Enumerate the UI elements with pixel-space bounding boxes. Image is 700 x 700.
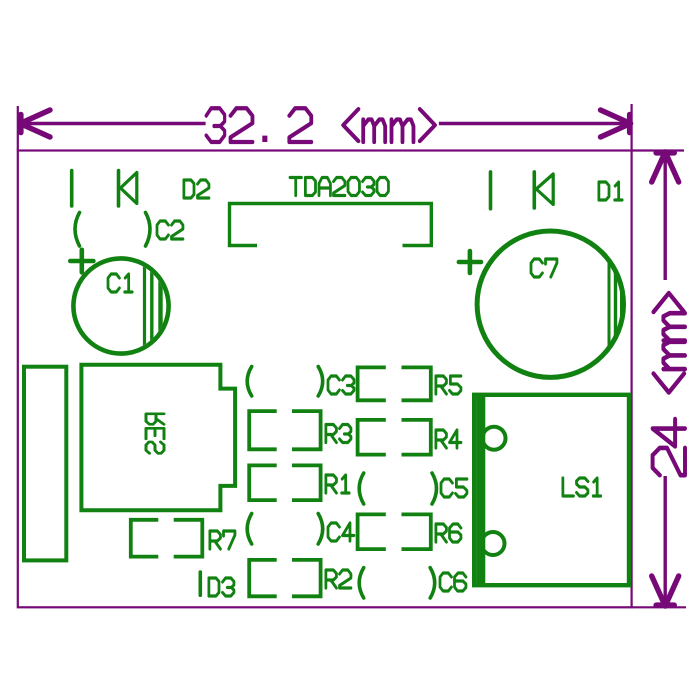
label D1 bbox=[599, 182, 622, 200]
label C1 bbox=[108, 274, 132, 292]
dimension extension line top (24mm) bbox=[632, 149, 684, 151]
diode D2 bbox=[70, 171, 74, 207]
dimension arrowhead down bbox=[652, 576, 666, 606]
capacitor C1 bbox=[73, 258, 168, 353]
capacitor C4 bbox=[247, 514, 252, 545]
dimension extension line left (32.2mm) bbox=[17, 106, 19, 151]
resistor R2 bbox=[249, 560, 277, 596]
dimension arrowhead up bbox=[652, 152, 666, 182]
polarity mark + C1 bbox=[70, 259, 93, 264]
dimension label 24 (mm) bbox=[653, 293, 685, 475]
label R7 bbox=[210, 531, 235, 549]
label R4 bbox=[436, 430, 461, 448]
resistor R6 bbox=[358, 514, 386, 549]
polarity mark + C7 bbox=[459, 260, 481, 265]
label D3 bbox=[209, 578, 234, 596]
label C7 bbox=[531, 259, 557, 277]
dimension arrowhead right bbox=[601, 110, 631, 124]
label LS1 bbox=[563, 478, 601, 496]
dimension extension line bottom (24mm) bbox=[632, 606, 686, 608]
capacitor C6 bbox=[359, 568, 364, 598]
label C4 bbox=[328, 523, 354, 541]
resistor R1 bbox=[249, 465, 277, 500]
resistor R3 bbox=[249, 411, 277, 449]
capacitor C7 bbox=[477, 231, 623, 377]
diode D3 mark bbox=[199, 572, 203, 595]
resistor R7 bbox=[131, 520, 159, 557]
label C6 bbox=[440, 573, 466, 591]
dimension arrowhead left bbox=[20, 110, 50, 124]
diode D1 bbox=[489, 172, 493, 209]
speaker terminal LS1 bbox=[474, 395, 629, 585]
capacitor C2 bbox=[75, 213, 80, 247]
resistor R5 bbox=[358, 367, 386, 400]
label C2 bbox=[157, 221, 183, 239]
dimension line 32.2mm bbox=[20, 122, 206, 125]
board outline bbox=[18, 151, 632, 608]
label R5 bbox=[436, 376, 461, 394]
label R2 bbox=[326, 570, 351, 588]
label R6 bbox=[436, 524, 461, 542]
dimension line 24mm bbox=[664, 152, 667, 280]
label R1 bbox=[326, 475, 349, 493]
label C3 bbox=[328, 376, 354, 394]
label RES (mirrored) bbox=[146, 414, 164, 454]
label R3 bbox=[326, 425, 351, 443]
capacitor C5 bbox=[359, 473, 364, 504]
label D2 bbox=[184, 180, 209, 198]
label TDA2030 bbox=[290, 178, 388, 196]
IC U1 TDA2030 outline bbox=[230, 204, 432, 246]
dimension extension line right (32.2mm) bbox=[630, 104, 632, 151]
label C5 bbox=[441, 479, 467, 497]
component RES outline bbox=[81, 365, 235, 511]
connector J1 bbox=[24, 367, 66, 561]
capacitor C3 bbox=[247, 367, 252, 397]
resistor R4 bbox=[358, 420, 386, 455]
dimension label 32.2 (mm) bbox=[206, 108, 435, 142]
